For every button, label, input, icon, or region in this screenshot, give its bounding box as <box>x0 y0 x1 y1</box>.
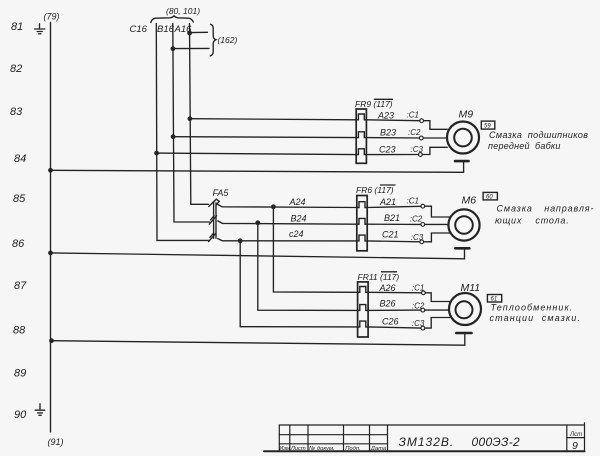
svg-text:88: 88 <box>13 325 26 337</box>
FR9 heater element 2 <box>356 132 366 138</box>
svg-text:C16: C16 <box>130 24 148 35</box>
wire terminal2 to motor M6 <box>425 223 449 225</box>
wire terminal3 to motor M9 <box>422 147 447 154</box>
junction A16 top tap <box>187 31 192 36</box>
wire M9 frame to ground bus <box>51 162 464 172</box>
svg-text:86: 86 <box>12 238 25 250</box>
svg-text:FR9 (117): FR9 (117) <box>355 99 393 109</box>
svg-text:ЗМ132В.: ЗМ132В. <box>399 435 455 449</box>
svg-text:(80, 101): (80, 101) <box>166 6 200 16</box>
svg-text::C1: :C1 <box>407 196 419 205</box>
wire C23 tap to FR9 <box>157 153 357 155</box>
ground symbol top <box>35 24 45 34</box>
wire A16 tap to (162) <box>190 31 208 33</box>
brace under (80,101) <box>151 16 194 23</box>
junction on ground bus row86 <box>48 251 53 256</box>
svg-text:B24: B24 <box>291 213 307 223</box>
svg-text:B23: B23 <box>380 127 396 137</box>
junction on ground bus row84 <box>48 168 53 173</box>
FR6 heater element 1 <box>357 202 367 208</box>
wire C24 breaker to FR6 <box>218 239 357 241</box>
terminal :C3 row1 <box>419 153 423 157</box>
svg-text:A23: A23 <box>377 111 394 121</box>
FR9 heater element 3 <box>356 149 366 155</box>
junction B16 to B23 <box>171 134 176 139</box>
svg-text:FR11 (117): FR11 (117) <box>358 272 400 282</box>
circuit breaker FA5 pole 2 hook <box>211 216 214 220</box>
svg-text:№ докум.: № докум. <box>309 446 335 452</box>
svg-text:станции смазки.: станции смазки. <box>490 313 581 323</box>
wire FR6 to terminal 2 <box>367 223 421 225</box>
motor M6 outer circle <box>448 209 479 240</box>
svg-text:85: 85 <box>13 193 26 205</box>
svg-text:90: 90 <box>14 409 27 421</box>
wire bus C16 vertical <box>156 24 209 241</box>
svg-text:A26: A26 <box>379 283 396 293</box>
wire B24 breaker to FR6 <box>218 221 357 224</box>
wire terminal1 to motor M11 <box>425 293 449 302</box>
terminal :C3 row2 <box>420 240 424 244</box>
wire terminal2 to motor M9 <box>423 137 447 139</box>
chassis bar under M6 <box>455 247 469 250</box>
circuit breaker FA5 pole 2 contact <box>209 216 216 225</box>
FR11 heater element 1 <box>358 287 369 293</box>
motor M6 inner circle <box>455 216 473 234</box>
svg-text::C2: :C2 <box>408 128 421 137</box>
svg-text::C2: :C2 <box>410 215 423 224</box>
svg-text:Смазка направля-: Смазка направля- <box>497 204 595 214</box>
svg-text:(91): (91) <box>48 437 64 447</box>
wire left ground bus (79)-(91) <box>50 22 52 432</box>
wire terminal1 to motor M6 <box>425 206 450 217</box>
svg-text:(162): (162) <box>218 35 238 45</box>
circuit breaker FA5 linkage bars <box>213 203 215 239</box>
svg-text:000ЭЗ-2: 000ЭЗ-2 <box>472 435 521 449</box>
wire bus B16 vertical <box>173 24 210 223</box>
svg-text:A21: A21 <box>379 197 396 207</box>
svg-text:Лист: Лист <box>290 446 306 452</box>
thermal relay FR9 body <box>356 109 366 163</box>
svg-text:C23: C23 <box>379 144 396 154</box>
item box 60 <box>483 192 497 200</box>
svg-text::C1: :C1 <box>407 111 419 120</box>
FR6 heater element 2 <box>357 218 367 224</box>
wire FR6 to terminal 1 <box>367 206 421 207</box>
terminal :C2 row3 <box>421 308 425 312</box>
svg-text:C26: C26 <box>382 316 399 326</box>
wire terminal3 to motor M6 <box>424 233 450 242</box>
motor M9 outer circle <box>447 122 479 154</box>
terminal :C1 row2 <box>421 204 425 208</box>
svg-text:Лст: Лст <box>569 432 582 438</box>
svg-text:60: 60 <box>486 195 493 201</box>
junction B16 top tap <box>171 46 176 51</box>
circuit breaker FA5 pole 1 contact <box>209 201 215 207</box>
wire bus A16 vertical <box>190 24 209 205</box>
svg-text:FA5: FA5 <box>213 188 230 198</box>
terminal :C3 row3 <box>421 326 425 330</box>
svg-text:Смазка подшипников: Смазка подшипников <box>489 130 588 140</box>
wire drop B24 to B26 <box>258 223 358 311</box>
svg-text:83: 83 <box>10 106 23 118</box>
svg-text::C3: :C3 <box>411 233 424 242</box>
svg-text:89: 89 <box>14 368 26 380</box>
wire FR11 to terminal 3 <box>368 327 421 328</box>
circuit breaker FA5 pole 1 hook <box>213 199 219 205</box>
junction C24 drop <box>238 238 243 243</box>
wire A23 tap to FR9 <box>190 119 357 120</box>
ground symbol bottom <box>35 404 44 416</box>
svg-text:Теплообменник.: Теплообменник. <box>491 303 574 313</box>
junction C16 to C23 <box>154 151 159 156</box>
terminal :C1 row3 <box>422 291 426 295</box>
svg-text:84: 84 <box>14 153 26 165</box>
junction B24 drop <box>255 220 260 225</box>
motor M11 inner circle <box>456 301 473 318</box>
circuit breaker FA5 pole 3 contact <box>209 233 216 241</box>
wire M6 frame to ground bus <box>51 250 465 259</box>
junction on ground bus row88 <box>49 338 54 343</box>
overline on 117 of FR6 <box>381 184 396 186</box>
wire B16 tap to (162) <box>173 47 209 49</box>
wire FR9 to terminal 3 <box>366 154 418 156</box>
wire FR11 to terminal 1 <box>368 291 422 294</box>
overline on 117 of FR11 <box>382 271 397 273</box>
wire drop A24 to A26 <box>273 207 357 292</box>
svg-text:ющих стола.: ющих стола. <box>495 216 570 226</box>
svg-text:C21: C21 <box>382 230 399 240</box>
motor M9 inner circle <box>454 129 472 147</box>
svg-text:Дата: Дата <box>370 446 387 452</box>
junction A24 drop <box>271 204 276 209</box>
svg-text:B16: B16 <box>157 24 175 35</box>
title block frame <box>264 423 585 451</box>
svg-text::C2: :C2 <box>412 302 425 311</box>
svg-text:М6: М6 <box>462 195 477 207</box>
thermal relay FR11 body <box>358 282 369 337</box>
svg-text:82: 82 <box>10 63 22 75</box>
wire A24 breaker to FR6 <box>218 205 357 208</box>
FR9 heater element 1 <box>356 114 366 120</box>
circuit breaker FA5 pole 3 hook <box>210 233 213 237</box>
chassis bar under M9 <box>455 160 468 163</box>
FR11 heater element 3 <box>358 321 369 327</box>
wire FR9 to terminal 1 <box>366 119 419 122</box>
brace to (162) <box>210 24 216 56</box>
item box 61 <box>487 295 501 303</box>
FR6 heater element 3 <box>357 235 367 241</box>
svg-text:c24: c24 <box>289 229 304 239</box>
svg-text:81: 81 <box>11 21 23 33</box>
wire FR6 to terminal 3 <box>367 240 420 243</box>
wire FR11 to terminal 2 <box>368 309 421 311</box>
item box 59 <box>481 121 495 129</box>
svg-text:Подп.: Подп. <box>345 446 360 452</box>
wire terminal3 to motor M11 <box>425 318 450 329</box>
svg-text:87: 87 <box>14 280 27 292</box>
svg-text:9: 9 <box>572 440 578 452</box>
svg-text:Изм: Изм <box>279 446 290 452</box>
svg-text:FR6 (117): FR6 (117) <box>356 185 394 195</box>
motor M11 outer circle <box>449 293 481 325</box>
terminal :C2 row1 <box>419 136 423 140</box>
svg-text:М9: М9 <box>459 109 474 121</box>
terminal :C2 row2 <box>421 223 425 227</box>
svg-text:59: 59 <box>484 124 491 130</box>
wire terminal2 to motor M11 <box>425 309 450 311</box>
chassis bar under M11 <box>456 332 471 335</box>
junction A16 to A23 <box>188 116 193 121</box>
svg-text:B26: B26 <box>380 299 396 309</box>
svg-text:A24: A24 <box>289 197 306 207</box>
FR11 heater element 2 <box>358 305 369 311</box>
wire terminal1 to motor M9 <box>424 121 448 130</box>
svg-text:передней бабки: передней бабки <box>488 141 561 151</box>
svg-text:B21: B21 <box>384 213 400 223</box>
overline on 117 of FR9 <box>375 98 393 100</box>
svg-text:(79): (79) <box>44 12 60 22</box>
wire drop C24 to C26 <box>240 241 357 327</box>
thermal relay FR6 body <box>357 196 367 251</box>
wire M11 frame to ground bus <box>52 334 465 345</box>
wire B23 tap to FR9 <box>173 136 356 139</box>
wire FR9 to terminal 2 <box>366 137 419 139</box>
terminal :C1 row1 <box>420 119 424 123</box>
